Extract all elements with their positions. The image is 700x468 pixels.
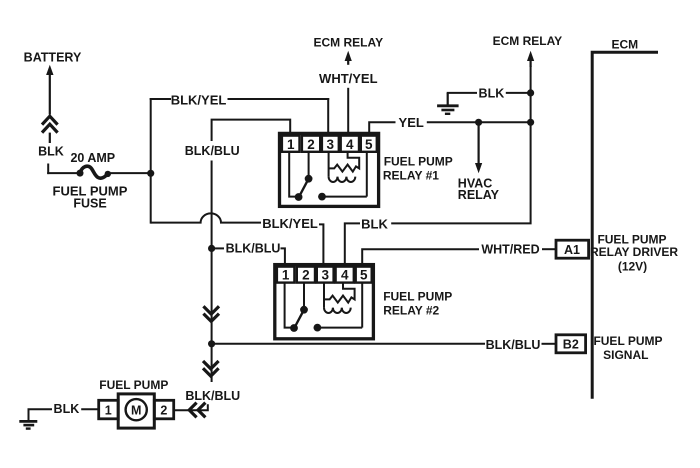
- wire BLK/BLU branch (left stub): [212, 247, 224, 249]
- junction node YEL / ECM relay feed: [527, 119, 534, 126]
- in-line connector (chevrons down, upper) on BLK/BLU: [203, 306, 219, 321]
- wire BLK/BLU corner into relay2 pin 1: [281, 248, 285, 266]
- svg-text:WHT/YEL: WHT/YEL: [319, 71, 378, 86]
- fuse F 20 AMP element: [77, 166, 112, 178]
- wire BLK/BLU signal to ECM terminal B2: [542, 343, 558, 345]
- fuel pump motor symbol (M in circle): [126, 399, 147, 420]
- wire pump pin1 to BLK label: [81, 408, 99, 410]
- wire BLK corner into relay2 pin 4: [345, 223, 360, 266]
- svg-text:BLK/BLU: BLK/BLU: [185, 389, 240, 403]
- switch common contact and wire to pin 5: [314, 283, 363, 332]
- svg-text:BLK/YEL: BLK/YEL: [262, 216, 318, 231]
- svg-text:BLK: BLK: [479, 87, 505, 101]
- wire WHT/RED to ECM terminal A1: [542, 248, 557, 250]
- junction node at fuse output: [147, 170, 154, 177]
- svg-text:BATTERY: BATTERY: [24, 51, 82, 65]
- in-line connector (chevrons down, lower) on BLK/BLU: [203, 361, 219, 376]
- svg-text:BLK/BLU: BLK/BLU: [226, 241, 281, 255]
- svg-text:FUSE: FUSE: [73, 197, 106, 211]
- svg-text:RELAY DRIVER: RELAY DRIVER: [590, 245, 678, 259]
- ground G2 (fuel pump ground): [19, 421, 37, 428]
- wire vertical from YEL junction down to BLK run: [391, 122, 530, 223]
- svg-text:FUEL PUMP: FUEL PUMP: [384, 155, 453, 169]
- switch arm (movable contact): [295, 175, 313, 201]
- svg-text:1: 1: [282, 268, 290, 283]
- svg-text:BLK: BLK: [361, 216, 388, 231]
- svg-text:BLK: BLK: [38, 145, 64, 159]
- svg-text:5: 5: [365, 137, 373, 152]
- svg-text:RELAY #1: RELAY #1: [383, 169, 439, 183]
- switch arm (movable contact): [290, 306, 308, 332]
- wire ECM relay vertical down to YEL junction: [530, 66, 532, 122]
- wire BLK/BLU vertical to pump connector: [211, 344, 213, 382]
- svg-text:(12V): (12V): [618, 260, 647, 274]
- svg-text:FUEL PUMP: FUEL PUMP: [99, 378, 168, 392]
- relay K2 FUEL PUMP RELAY #2 outer box: [275, 265, 374, 339]
- svg-text:3: 3: [321, 268, 329, 283]
- svg-text:4: 4: [346, 137, 354, 152]
- svg-text:FUEL PUMP: FUEL PUMP: [383, 289, 452, 303]
- label FUEL PUMP RELAY DRIVER (12V): [590, 233, 678, 274]
- arrow up to ECM RELAY (right): [527, 51, 534, 67]
- junction node YEL / HVAC relay: [475, 119, 482, 126]
- fuel pump motor M1 body box: [118, 394, 154, 428]
- ground G1 (ECM relay coil ground): [437, 93, 459, 114]
- svg-text:WHT/RED: WHT/RED: [481, 242, 539, 256]
- wire from relay1 pin 5 up and right (YEL): [369, 122, 395, 135]
- wire BLK/BLU signal run to B2: [212, 343, 485, 345]
- ECM module boundary line: [592, 52, 658, 399]
- svg-text:2: 2: [160, 403, 167, 417]
- ECM terminal A1 box: [556, 240, 589, 258]
- pump harness connector (chevrons left): [174, 403, 208, 418]
- fuel pump pin 1 terminal box: [99, 400, 119, 419]
- wire BLK/BLU vertical through connector: [211, 249, 213, 344]
- svg-text:1: 1: [287, 137, 295, 152]
- relay K2 pin 3 terminal box: [317, 267, 334, 283]
- wire down into relay1 pin 3: [327, 98, 329, 135]
- svg-text:20 AMP: 20 AMP: [70, 151, 115, 165]
- ECM terminal B2 box: [556, 335, 586, 353]
- label FUEL PUMP RELAY #2: [383, 289, 452, 317]
- svg-text:YEL: YEL: [399, 115, 424, 130]
- wire BLK/YEL horizontal (left part): [150, 98, 171, 100]
- label HVAC RELAY: [458, 177, 500, 202]
- label FUEL PUMP RELAY #1: [383, 155, 453, 183]
- relay K1 pin 1 terminal box: [282, 136, 300, 152]
- svg-text:M: M: [131, 404, 141, 418]
- switch common contact and wire to pin 5: [318, 152, 367, 201]
- relay K1 pin 4 terminal box: [341, 136, 359, 152]
- svg-text:ECM RELAY: ECM RELAY: [493, 34, 563, 48]
- arrow up to ECM RELAY: [345, 51, 352, 65]
- wire BLK/BLU vertical below label: [211, 161, 213, 250]
- svg-text:2: 2: [302, 268, 310, 283]
- relay K1 FUEL PUMP RELAY #1 outer box: [280, 133, 379, 206]
- relay coil winding: [329, 152, 360, 182]
- svg-text:4: 4: [341, 268, 349, 283]
- svg-text:ECM: ECM: [611, 38, 638, 52]
- svg-text:B2: B2: [563, 337, 579, 351]
- svg-text:RELAY: RELAY: [458, 188, 500, 202]
- in-line connector (battery side, chevrons up): [42, 116, 58, 143]
- label FUEL PUMP SIGNAL: [593, 334, 662, 362]
- svg-text:BLK: BLK: [54, 402, 80, 416]
- wire into fuse: [47, 172, 79, 174]
- svg-text:5: 5: [360, 268, 368, 283]
- internal wire from pin 2 to switch pivot: [308, 152, 310, 178]
- junction node BLK/BLU branch to relay2: [208, 245, 215, 252]
- internal wire from pin 1: [285, 283, 292, 328]
- wire BLK to ground corner: [29, 409, 53, 421]
- relay K2 pin 2 terminal box: [297, 267, 315, 283]
- relay K1 pin 5 terminal box: [361, 136, 377, 152]
- svg-text:BLK/YEL: BLK/YEL: [171, 93, 227, 108]
- svg-text:A1: A1: [564, 243, 580, 257]
- wire from BLK label down to fuse wire: [47, 164, 49, 175]
- wire BLK/YEL corner into relay2 pin 3: [319, 224, 323, 266]
- relay K2 pin 1 terminal box: [277, 267, 295, 283]
- svg-text:SIGNAL: SIGNAL: [603, 348, 648, 362]
- svg-text:BLK/BLU: BLK/BLU: [185, 144, 240, 158]
- label FUEL PUMP FUSE: [53, 184, 128, 211]
- battery feed arrow (to battery): [46, 65, 53, 115]
- svg-text:1: 1: [105, 403, 112, 417]
- wire from relay2 pin 5 up and right (WHT/RED): [362, 249, 479, 266]
- wire BLK to ECM relay vertical: [506, 92, 532, 94]
- wire ground to BLK label: [447, 92, 477, 94]
- wire WHT/YEL down to relay1 pin 4: [347, 88, 349, 135]
- internal wire from pin 2 to switch pivot: [303, 283, 305, 309]
- arrow down to HVAC RELAY: [475, 122, 482, 173]
- wire YEL to HVAC/ECM junctions: [427, 121, 532, 123]
- svg-text:ECM RELAY: ECM RELAY: [314, 36, 384, 50]
- svg-text:BLK/BLU: BLK/BLU: [486, 338, 541, 352]
- relay coil winding: [324, 283, 355, 313]
- wire BLK/BLU branch corner (upper): [212, 120, 291, 141]
- svg-text:2: 2: [307, 137, 315, 152]
- wire lower BLK/YEL run with hop over BLK/BLU: [151, 213, 261, 222]
- wire junction down to lower BLK/YEL run: [150, 173, 152, 224]
- svg-text:RELAY #2: RELAY #2: [383, 303, 439, 317]
- relay K2 pin 5 terminal box: [356, 267, 372, 283]
- internal wire from pin 1: [289, 152, 296, 197]
- relay K2 pin 4 terminal box: [336, 267, 354, 283]
- relay K1 pin 2 terminal box: [302, 136, 320, 152]
- junction node BLK / ECM relay vertical: [527, 89, 534, 96]
- svg-text:3: 3: [327, 137, 335, 152]
- junction node BLK/BLU signal branch: [208, 340, 215, 347]
- wire fuse to junction: [108, 172, 152, 174]
- relay K1 pin 3 terminal box: [322, 136, 339, 152]
- svg-text:FUEL PUMP: FUEL PUMP: [593, 334, 662, 348]
- fuel pump pin 2 terminal box: [154, 400, 173, 419]
- wire BLK/YEL horizontal to relay1 pin 3: [228, 98, 330, 100]
- wire junction up to BLK/YEL run: [150, 98, 152, 174]
